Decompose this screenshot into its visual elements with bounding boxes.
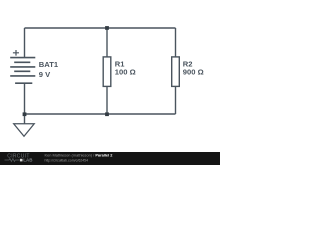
wire battery top stub	[24, 28, 26, 57]
wire ground stub	[24, 114, 26, 124]
ground	[14, 124, 35, 137]
svg-text:Ken Mathieson (mathieson) / Pa: Ken Mathieson (mathieson) / Parallel 2	[45, 153, 114, 158]
footer logo CircuitLab	[5, 153, 34, 162]
wire R1 bottom	[106, 86, 108, 114]
battery BAT1	[10, 50, 35, 83]
resistor R1	[103, 57, 111, 87]
svg-text:BAT1: BAT1	[39, 60, 59, 69]
resistor R2	[172, 57, 180, 87]
node junction top	[105, 26, 109, 30]
svg-text:900 Ω: 900 Ω	[183, 68, 204, 77]
battery plate negative terminal	[15, 82, 32, 84]
battery plate long 1	[10, 57, 35, 59]
battery plus polarity mark	[13, 50, 19, 56]
wire top rail	[25, 27, 176, 29]
footer bar	[0, 152, 220, 165]
node junction bottom	[105, 112, 109, 116]
wire R1 top	[106, 28, 108, 57]
wire R2 top	[175, 28, 177, 57]
wire battery bottom stub	[24, 83, 26, 114]
battery plate short 1	[14, 61, 30, 63]
svg-text:100 Ω: 100 Ω	[115, 68, 136, 77]
svg-text:http://circuitlab.com/c/62454: http://circuitlab.com/c/62454	[45, 158, 89, 162]
battery plate long 2	[10, 66, 35, 68]
wire bottom rail	[25, 113, 176, 115]
battery plate short 2	[14, 70, 30, 72]
wire R2 bottom	[175, 86, 177, 114]
svg-text:9 V: 9 V	[39, 70, 51, 79]
svg-text:LAB: LAB	[23, 158, 33, 163]
node junction ground	[23, 112, 27, 116]
battery plate long 3	[10, 75, 35, 77]
